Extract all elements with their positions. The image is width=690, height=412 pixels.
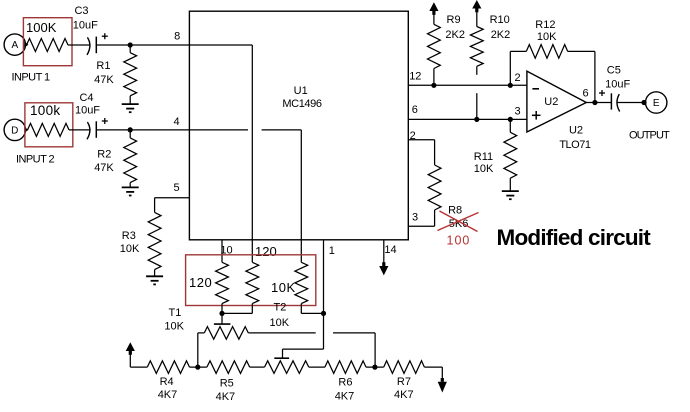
wire C5 to output E — [617, 102, 646, 104]
ground under R2 — [122, 187, 139, 195]
power arrow above R10 — [472, 0, 481, 12]
pin 1 stub — [323, 240, 325, 314]
svg-text:10K: 10K — [120, 243, 140, 255]
label R1 — [96, 60, 110, 72]
label U2 TLO71 — [559, 125, 591, 151]
power arrow above R9 — [429, 2, 438, 15]
svg-text:R7: R7 — [397, 376, 411, 388]
pin label 6 — [412, 104, 418, 116]
label 10K (T1) — [164, 320, 184, 332]
label R11 — [474, 151, 493, 163]
potentiometer T2 element — [265, 361, 325, 374]
svg-text:2K2: 2K2 — [491, 29, 511, 41]
label 10uF (C3) — [73, 19, 98, 31]
junction R12/pin12 — [508, 83, 513, 88]
label OUTPUT — [629, 130, 670, 142]
label 10K (R3) — [120, 243, 140, 255]
bank resistor 2 (120) — [222, 262, 259, 313]
label 120 (second bank resistor) — [255, 244, 277, 259]
junction R6/R7/T1-right — [372, 365, 377, 370]
wire C4 to pin 4 — [96, 129, 189, 131]
wire pin 12 to op-amp — [408, 84, 527, 86]
label 100 (modified value) — [447, 233, 471, 247]
label 10K (T2) — [270, 317, 290, 329]
label R8 — [448, 205, 462, 217]
wire R12 right branch — [568, 51, 595, 102]
label C3 — [74, 5, 88, 17]
svg-text:T1: T1 — [169, 307, 182, 319]
svg-text:4: 4 — [173, 116, 179, 128]
svg-text:10uF: 10uF — [605, 78, 630, 90]
title Modified circuit — [497, 225, 652, 250]
junction bank1/bank2/T1 wiper — [219, 311, 224, 316]
svg-text:47K: 47K — [94, 162, 114, 174]
svg-text:D: D — [11, 126, 18, 137]
label 120 (first bank resistor) — [189, 275, 212, 290]
power arrow bottom left — [126, 342, 148, 367]
svg-text:R8: R8 — [448, 205, 462, 217]
junction bank3/pin1/T2 wiper — [321, 311, 326, 316]
label R2 — [97, 149, 111, 161]
resistor R8 — [428, 165, 441, 226]
svg-text:100K: 100K — [26, 20, 57, 35]
svg-text:R1: R1 — [96, 60, 110, 72]
svg-text:3: 3 — [515, 105, 521, 117]
junction R4/R5/T1 — [195, 365, 200, 370]
resistor R12 — [526, 45, 567, 59]
T1 wiper — [214, 313, 231, 324]
C5 plus sign — [599, 90, 605, 96]
pin label 1 — [329, 245, 335, 257]
wire pin 5 to R3 — [155, 198, 190, 213]
label 4K7 (R4) — [158, 389, 178, 401]
junction R10/pin6 — [474, 117, 479, 122]
T2 wiper bar — [274, 357, 289, 359]
op-amp minus sign — [532, 88, 539, 90]
svg-text:6: 6 — [583, 88, 589, 100]
power arrow bottom right — [438, 367, 447, 392]
svg-text:R5: R5 — [220, 378, 234, 390]
svg-text:C4: C4 — [79, 92, 93, 104]
label 47K (R1) — [94, 74, 114, 86]
label C5 — [607, 65, 621, 77]
pin label 14 — [384, 244, 396, 256]
junction node input1/R1 — [128, 42, 133, 47]
resistor R7 — [384, 361, 443, 374]
resistor R4 — [147, 361, 207, 374]
label 4K7 (R7) — [394, 389, 414, 401]
junction at output terminal — [641, 100, 646, 105]
label 2K2 (R9) — [445, 29, 465, 41]
junction output/R12 — [592, 100, 597, 105]
label 10K (third bank resistor) — [271, 280, 296, 295]
wire input2 to C4 — [69, 129, 91, 131]
wire pin4 internal — [189, 130, 301, 262]
label R4 — [160, 376, 174, 388]
label 100K (input 1 resistor value) — [26, 20, 57, 35]
resistor 100K input 1 — [27, 39, 69, 52]
label C4 — [79, 92, 93, 104]
label R6 — [338, 377, 352, 389]
svg-text:R10: R10 — [490, 14, 510, 26]
svg-text:10K: 10K — [474, 163, 494, 175]
label 10uF (C4) — [75, 105, 100, 117]
svg-text:10uF: 10uF — [75, 105, 100, 117]
svg-text:R12: R12 — [535, 19, 555, 31]
resistor R10 — [470, 12, 483, 75]
wire T1 right toward R6/R7 junction — [248, 332, 315, 334]
resistor R1 — [124, 45, 137, 104]
junction R11/pin6 — [508, 117, 513, 122]
op-chip U1 MC1496 box — [189, 11, 408, 240]
svg-text:Modified circuit: Modified circuit — [497, 225, 652, 250]
wire R10 to pin 6 (hops pin12 wire) — [476, 93, 478, 119]
capacitor C5 — [611, 93, 619, 111]
label 4K7 (R6) — [335, 390, 355, 402]
label 47K (R2) — [94, 162, 114, 174]
svg-text:100: 100 — [447, 233, 471, 247]
wire pin 3 to R8 — [408, 225, 434, 227]
resistor R2 — [124, 130, 137, 188]
svg-text:U2: U2 — [544, 96, 558, 108]
pin label 6 (op-amp) — [583, 88, 589, 100]
svg-text:U2: U2 — [569, 125, 583, 137]
junction node input2/R2 — [128, 127, 133, 132]
svg-text:A: A — [11, 40, 18, 51]
svg-text:C3: C3 — [74, 5, 88, 17]
svg-text:10K: 10K — [537, 31, 557, 43]
label 10K (R12) — [537, 31, 557, 43]
svg-text:R11: R11 — [474, 151, 493, 163]
wire pin 2 to R8 — [408, 140, 434, 165]
svg-text:INPUT 1: INPUT 1 — [12, 72, 51, 84]
label 5K6 (crossed out) — [449, 218, 469, 230]
label INPUT 2 — [16, 154, 55, 166]
red cross over 5K6 — [438, 211, 479, 232]
capacitor C4 — [87, 121, 96, 139]
label R7 — [397, 376, 411, 388]
svg-text:TLO71: TLO71 — [559, 139, 591, 151]
pin label 4 — [173, 116, 179, 128]
svg-text:R3: R3 — [122, 230, 136, 242]
highlight box resistor bank — [186, 255, 316, 306]
pin label 2 (U1) — [410, 130, 416, 142]
svg-text:4K7: 4K7 — [335, 390, 355, 402]
resistor 100k input 2 — [28, 123, 70, 136]
svg-text:8: 8 — [174, 31, 180, 43]
ground under R11 — [502, 191, 519, 199]
svg-text:10uF: 10uF — [73, 19, 98, 31]
pin label 5 — [173, 182, 179, 194]
wire pin 6 to op-amp — [408, 118, 527, 120]
pin label 3 (U1) — [412, 212, 418, 224]
resistor R6 — [325, 361, 384, 374]
ground under R1 — [122, 104, 139, 112]
svg-text:10K: 10K — [271, 280, 296, 295]
bank resistor 3 (10K) — [295, 262, 324, 313]
svg-text:47K: 47K — [94, 74, 114, 86]
input arrowhead D — [24, 127, 28, 133]
wire op-amp output — [586, 102, 611, 104]
svg-text:1: 1 — [329, 245, 335, 257]
label R5 — [220, 378, 234, 390]
svg-text:R2: R2 — [97, 149, 111, 161]
svg-text:10K: 10K — [270, 317, 290, 329]
label T2 — [274, 302, 287, 314]
capacitor C3 — [87, 37, 96, 55]
label 2K2 (R10) — [491, 29, 511, 41]
svg-text:R4: R4 — [160, 376, 174, 388]
label U1 — [294, 85, 308, 97]
pin 10 stub — [221, 240, 223, 262]
svg-text:T2: T2 — [274, 302, 287, 314]
label 10K (R11) — [474, 163, 494, 175]
pin label 12 — [409, 71, 421, 83]
wire T1 right continuation (hops pin1 wire) — [333, 333, 375, 367]
label T1 — [169, 307, 182, 319]
svg-text:3: 3 — [412, 212, 418, 224]
svg-text:12: 12 — [409, 71, 421, 83]
label U2 (inside) — [544, 96, 558, 108]
svg-text:10K: 10K — [164, 320, 184, 332]
label 4K7 (R5) — [216, 391, 236, 403]
svg-text:6: 6 — [412, 104, 418, 116]
pin label 2 (op-amp) — [515, 72, 521, 84]
wire T1 left to R4/R5 junction — [198, 333, 205, 367]
wire R12 left branch — [510, 51, 526, 85]
svg-text:4K7: 4K7 — [158, 389, 178, 401]
label 100k (input 2 resistor value) — [30, 103, 60, 118]
label R10 — [490, 14, 510, 26]
label INPUT 1 — [12, 72, 51, 84]
wire pin8 internal — [189, 45, 252, 262]
T2 wiper path — [283, 313, 324, 358]
highlight box input 1 — [23, 18, 72, 66]
svg-text:U1: U1 — [294, 85, 308, 97]
svg-text:C5: C5 — [607, 65, 621, 77]
pin label 3 (op-amp) — [515, 105, 521, 117]
wire C3 to pin 8 — [96, 44, 189, 46]
resistor R3 — [148, 212, 161, 276]
resistor R9 — [428, 14, 441, 85]
ground under R3 — [146, 276, 163, 284]
label R12 — [535, 19, 555, 31]
pin label 10 — [220, 244, 232, 256]
svg-text:14: 14 — [384, 244, 396, 256]
op-amp plus sign — [532, 111, 541, 120]
svg-text:R9: R9 — [447, 14, 461, 26]
label MC1496 — [282, 98, 321, 110]
output terminal E — [646, 92, 667, 113]
svg-text:4K7: 4K7 — [394, 389, 414, 401]
svg-text:2: 2 — [515, 72, 521, 84]
power arrow pin 14 — [379, 262, 388, 275]
potentiometer T1 — [204, 327, 248, 340]
wire input1 to C3 — [68, 44, 91, 46]
svg-text:INPUT 2: INPUT 2 — [16, 154, 55, 166]
svg-text:E: E — [653, 98, 660, 109]
C3 plus sign — [102, 33, 108, 39]
input terminal A — [4, 34, 25, 55]
svg-text:MC1496: MC1496 — [282, 98, 321, 110]
pin label 8 — [174, 31, 180, 43]
bank resistor 1 (120) — [216, 262, 229, 313]
svg-text:120: 120 — [189, 275, 212, 290]
resistor R5 — [207, 361, 265, 374]
highlight box input 2 — [25, 103, 73, 147]
svg-text:5: 5 — [173, 182, 179, 194]
label 10uF (C5) — [605, 78, 630, 90]
input terminal D — [4, 119, 25, 140]
resistor R11 — [504, 119, 517, 191]
svg-text:OUTPUT: OUTPUT — [629, 130, 670, 142]
svg-text:R6: R6 — [338, 377, 352, 389]
svg-text:120: 120 — [255, 244, 277, 259]
svg-text:100k: 100k — [30, 103, 60, 118]
svg-text:4K7: 4K7 — [216, 391, 236, 403]
label R3 — [122, 230, 136, 242]
input arrowhead A — [24, 42, 28, 48]
junction R9/pin12 — [431, 83, 436, 88]
op-amp U2 triangle — [527, 71, 586, 132]
C4 plus sign — [102, 118, 108, 124]
svg-text:2K2: 2K2 — [445, 29, 465, 41]
pin 14 stub — [383, 240, 385, 263]
label R9 — [447, 14, 461, 26]
